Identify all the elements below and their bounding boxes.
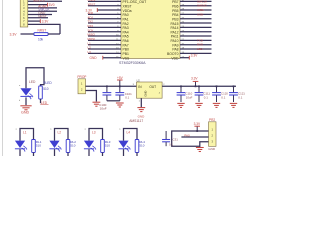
wire PR2 pin3 to ground	[200, 142, 209, 147]
wire U1 right pin PA8	[180, 48, 212, 50]
wire L1 cathode down	[19, 149, 21, 156]
wire LED1 cathode to GND	[25, 97, 27, 105]
connector PR2 body	[209, 122, 217, 147]
wire U2 GND pin down	[140, 98, 142, 107]
wire RL1 down	[33, 153, 35, 157]
wire U1 right pin PB4	[180, 13, 212, 15]
svg-text:3.3V: 3.3V	[10, 32, 18, 36]
resistor RL4	[135, 140, 139, 153]
wire L2 cathode down	[54, 149, 56, 156]
wire RL4 down	[136, 153, 138, 157]
wire PR2 pin2 signal	[181, 136, 208, 138]
svg-text:BOOT0: BOOT0	[34, 0, 45, 3]
wire L4 cathode down	[123, 149, 125, 156]
wire PROP pin2 to ground	[86, 91, 97, 102]
wire VDD pin	[180, 57, 189, 59]
wire U1 left pin PA2	[88, 22, 121, 24]
wire U1 left pin PA6	[88, 39, 121, 41]
svg-text:510: 510	[139, 144, 144, 148]
svg-text:XRST: XRST	[88, 2, 96, 6]
wire P1 pin7 3.3V	[28, 20, 40, 22]
wire U1 left pin PF1-OSC_OUT	[88, 0, 121, 2]
op IC U1 MCU body	[121, 0, 180, 59]
svg-text:LED: LED	[197, 47, 203, 51]
svg-text:NRST: NRST	[38, 14, 47, 18]
ground below C101	[116, 103, 124, 107]
wire L3 cathode down	[88, 149, 90, 156]
power flag 3.3V at PR2	[196, 126, 198, 131]
ground below C121	[230, 103, 237, 107]
power bar 3.3V on P1 pin7	[39, 19, 41, 23]
svg-text:510: 510	[70, 144, 75, 148]
svg-text:GND: GND	[21, 110, 30, 114]
svg-text:0.1: 0.1	[204, 95, 208, 99]
wire 3.3V to R1	[21, 33, 35, 35]
wire U1 right pin PB5	[180, 9, 212, 11]
wire U1 right pin BOOT0	[180, 52, 212, 54]
junction C121 on 3.3V rail	[233, 85, 235, 87]
svg-text:3.3V: 3.3V	[42, 19, 50, 23]
wire RLED to net LED	[40, 99, 42, 103]
junction C100 on 5V rail	[106, 85, 108, 87]
LED L2	[49, 141, 62, 152]
wire P1 pin3 AGND	[28, 7, 57, 9]
svg-text:L3: L3	[92, 130, 96, 134]
resistor RL2	[66, 140, 70, 153]
svg-text:510: 510	[43, 87, 49, 91]
wire PR2 pin1 loop to ground rail	[172, 131, 209, 146]
svg-text:LED: LED	[41, 101, 48, 105]
wire U1 right pin PB6	[180, 5, 212, 7]
wire L1 loop	[20, 129, 34, 141]
wire U1 left pin PA0	[88, 13, 121, 15]
wire L4 loop	[124, 129, 138, 141]
ground below LED1	[20, 106, 31, 110]
capacitor C121	[229, 86, 238, 102]
svg-text:PA0: PA0	[184, 133, 190, 137]
junction C111 on 3.3V rail	[198, 85, 200, 87]
wire U1 right pin PB3	[180, 18, 212, 20]
svg-text:5V0: 5V0	[49, 3, 55, 7]
svg-text:3.3V: 3.3V	[191, 53, 199, 57]
ground below C111	[195, 103, 202, 107]
wire U1 right pin PA11	[180, 35, 212, 37]
wire L2 loop	[55, 129, 69, 141]
wire U1 left pin XRST	[88, 5, 121, 7]
wire P1 pin8 to NRST node	[28, 24, 60, 34]
LED L4	[118, 141, 130, 152]
wire U1 right pin PA15	[180, 22, 212, 24]
connector PROP body	[78, 79, 86, 94]
wire P1 pin4 SWCLK	[28, 10, 57, 12]
ground below PR2 pin3	[196, 148, 204, 152]
svg-text:RLED: RLED	[43, 81, 52, 85]
capacitor C120	[212, 86, 221, 102]
wire P1 pin1 BOOT0	[28, 0, 62, 2]
capacitor C100	[103, 86, 112, 101]
svg-text:VSS: VSS	[123, 56, 131, 60]
wire U1 left pin PA7	[88, 44, 121, 46]
connector P1 body	[20, 0, 28, 27]
LED L1	[15, 141, 28, 152]
svg-text:0.1: 0.1	[169, 142, 173, 146]
svg-text:3.3V: 3.3V	[191, 77, 198, 81]
power flag 3.3V on rail	[195, 85, 197, 87]
wire VSS pin	[103, 57, 121, 59]
svg-text:10uF: 10uF	[186, 95, 193, 99]
power bar 5V on P1 pin2	[47, 3, 49, 7]
wire P1 pin5 GND	[28, 14, 52, 16]
capacitor C110	[177, 86, 186, 102]
wire U1 right pin PA14	[180, 26, 212, 28]
svg-text:L1: L1	[23, 130, 27, 134]
resistor RL1	[32, 140, 36, 153]
resistor R1 NRST pull-up	[34, 33, 48, 36]
ground below C110	[177, 103, 184, 107]
wire PROP pin1 5V rail to regulator IN	[86, 85, 137, 87]
svg-text:3.3V: 3.3V	[194, 122, 201, 126]
wire 3.3V rail from U2 OUT	[162, 85, 236, 87]
wire U1 left pin PA5	[88, 35, 121, 37]
svg-text:L4: L4	[127, 130, 131, 134]
resistor RL3	[101, 140, 105, 153]
svg-text:0.1: 0.1	[238, 95, 242, 99]
wire U1 right pin PA9	[180, 44, 212, 46]
svg-text:NRST: NRST	[38, 29, 47, 33]
svg-text:LED: LED	[29, 80, 36, 84]
regulator U2 body	[137, 82, 163, 98]
wire U1 right pin PB7	[180, 0, 212, 2]
junction C101 and 5V flag	[119, 85, 121, 87]
wire U1 left pin PA4	[88, 31, 121, 33]
ground below U2	[137, 108, 145, 112]
power flag 5V	[119, 80, 121, 86]
wire cap grounds join	[107, 100, 120, 102]
ground below PROP pin2	[93, 102, 101, 106]
wire U1 right pin PA10	[180, 39, 212, 41]
LED L3	[84, 141, 97, 152]
wire RL2 down	[67, 153, 69, 157]
svg-text:C31: C31	[173, 138, 179, 142]
junction C120 on 3.3V rail	[216, 85, 218, 87]
svg-text:L2: L2	[58, 130, 62, 134]
junction C110 on 3.3V rail	[180, 85, 182, 87]
svg-text:10k: 10k	[38, 38, 44, 42]
capacitor C111	[195, 86, 204, 102]
svg-text:AMS1117: AMS1117	[129, 119, 143, 123]
svg-text:0.1: 0.1	[125, 95, 129, 99]
junction PR2 pin1 power	[196, 130, 198, 132]
wire U1 right pin PA12	[180, 31, 212, 33]
wire U1 left pin PA3	[88, 26, 121, 28]
power bar 3.3V VDDA pin	[96, 8, 98, 12]
capacitor C31	[165, 131, 167, 139]
svg-text:510: 510	[105, 144, 110, 148]
wire P1 pin6 NRST	[28, 17, 48, 19]
svg-text:USB-: USB-	[197, 12, 204, 16]
svg-text:GND: GND	[208, 147, 216, 151]
svg-text:10uF: 10uF	[100, 107, 107, 111]
wire R1 to corner node	[48, 33, 60, 35]
svg-text:VDD: VDD	[171, 56, 179, 60]
svg-text:GND: GND	[138, 115, 146, 119]
power bar GND VSS pin	[102, 56, 104, 60]
svg-text:+5V: +5V	[117, 76, 124, 80]
wire U1 left pin PB1	[88, 52, 121, 54]
wire U1 left pin PA1	[88, 18, 121, 20]
ground below C120	[213, 103, 220, 107]
sheet border line	[2, 0, 4, 156]
svg-text:GND: GND	[144, 91, 148, 97]
wire LED1 loop	[26, 68, 44, 89]
svg-text:GND: GND	[90, 56, 98, 60]
resistor RLED	[39, 86, 43, 99]
power bar 3.3V VDD pin	[188, 56, 190, 60]
svg-text:0.1: 0.1	[221, 95, 225, 99]
wire U1 left pin PB0	[88, 48, 121, 50]
wire VDDA pin	[98, 9, 121, 11]
wire RL3 down	[102, 153, 104, 157]
svg-text:L3: L3	[88, 50, 92, 54]
wire L3 loop	[89, 129, 103, 141]
svg-text:OUT: OUT	[149, 85, 156, 89]
LED LED1	[20, 88, 33, 99]
capacitor C101	[115, 86, 124, 101]
wire P1 pin2 5V	[28, 4, 47, 6]
svg-text:STM32F030K6A: STM32F030K6A	[119, 61, 146, 65]
svg-text:510: 510	[36, 144, 41, 148]
